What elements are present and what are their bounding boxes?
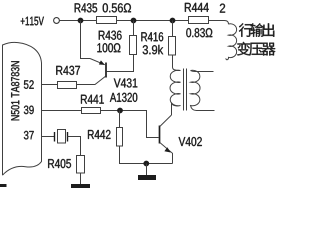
ground under R405 bbox=[71, 184, 90, 188]
wire rail middle bbox=[117, 20, 189, 22]
label 变压器 (transformer) bbox=[237, 42, 275, 56]
label 行输出 (line output) bbox=[239, 23, 274, 37]
value 3.9k R416 bbox=[143, 45, 164, 54]
node +115V supply terminal bbox=[21, 17, 60, 26]
wire R442 to emitter rail bbox=[120, 146, 173, 164]
resonator Z (pin 37) bbox=[55, 130, 68, 144]
junction C bbox=[170, 18, 176, 24]
transistor V402 collector lead bbox=[160, 115, 172, 127]
resistor R442 bbox=[88, 128, 123, 147]
value 100Ω R436 bbox=[97, 43, 120, 52]
wire junction D down bbox=[119, 111, 121, 128]
resistor R437 bbox=[56, 66, 80, 89]
transistor V431 base bar bbox=[105, 63, 107, 78]
transistor V402 emitter lead bbox=[160, 143, 173, 164]
op-amp IC N501 TA8783N body bbox=[3, 42, 42, 175]
resistor R436 bbox=[99, 31, 137, 55]
wire rail to flyback winding bbox=[209, 21, 229, 25]
label V402 bbox=[179, 137, 202, 146]
label N501 TA8783N bbox=[11, 61, 19, 120]
wire +115V rail left bbox=[60, 20, 97, 22]
ground under V402 bbox=[138, 175, 156, 180]
wire transformer primary to V402 collector bbox=[171, 103, 173, 116]
resistor R416 bbox=[141, 32, 175, 55]
inductor flyback primary winding (pin 2) bbox=[226, 24, 237, 60]
wire R441 to V402 base bbox=[101, 111, 159, 138]
wire R436 to V431 base bbox=[107, 55, 134, 72]
wire junction B down bbox=[133, 21, 135, 36]
ground stub bottom-left bbox=[0, 184, 7, 187]
value 0.56Ω R435 bbox=[103, 3, 131, 12]
junction E (emitter/ground node) bbox=[143, 161, 149, 167]
transistor V402 emitter arrow bbox=[164, 147, 170, 152]
resistor R444 bbox=[185, 3, 209, 24]
resistor R441 bbox=[81, 95, 104, 114]
transistor V431 emitter arrow bbox=[99, 60, 105, 65]
wire IC pin 37 to resonator bbox=[42, 136, 55, 138]
label V431 bbox=[114, 78, 138, 87]
transistor V431 emitter lead bbox=[90, 59, 105, 65]
transformer T primary winding bbox=[170, 70, 180, 106]
wire junction C down bbox=[172, 21, 174, 37]
wire junction E to ground bbox=[146, 164, 148, 176]
wire secondary top lead bbox=[191, 71, 214, 72]
wire IC pin 39 to R441 bbox=[42, 110, 82, 112]
junction D (R442 node) bbox=[117, 108, 123, 114]
pin 39 bbox=[24, 106, 34, 115]
pin 52 bbox=[24, 80, 34, 89]
transistor V402 base bar bbox=[159, 126, 161, 144]
wire R405 to ground bbox=[80, 173, 82, 185]
transistor V431 collector lead bbox=[77, 76, 106, 84]
junction A bbox=[78, 18, 84, 24]
resistor R405 bbox=[48, 156, 84, 174]
label A1320 bbox=[110, 93, 137, 102]
junction B bbox=[131, 18, 137, 24]
transformer T core bbox=[184, 69, 187, 111]
wire resonator to R405 bbox=[68, 137, 81, 156]
resistor R435 bbox=[75, 3, 117, 23]
value 0.83Ω R444 bbox=[186, 28, 212, 37]
wire secondary bottom lead bbox=[197, 110, 215, 112]
pin 37 bbox=[24, 131, 34, 140]
wire R416 to transformer primary bbox=[173, 55, 181, 71]
pin 2 label bbox=[220, 4, 225, 13]
transformer T secondary winding bbox=[191, 70, 201, 110]
wire junction A down to V431 emitter bbox=[81, 21, 91, 59]
wire R437 to IC pin 52 bbox=[42, 84, 58, 86]
